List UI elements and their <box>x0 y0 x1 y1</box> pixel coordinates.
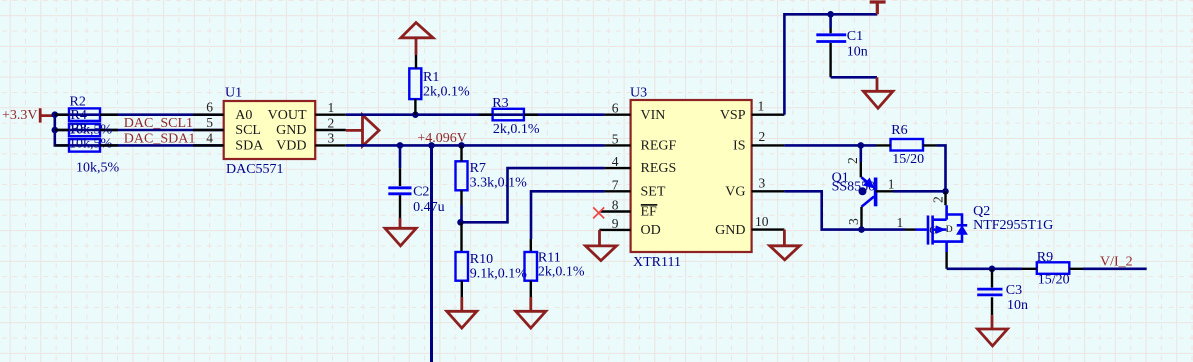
svg-text:10n: 10n <box>1007 298 1028 313</box>
svg-text:GND: GND <box>715 223 745 238</box>
wire row2 DAC_SCL1 <box>55 129 224 132</box>
pin 4 U3 REGS <box>605 154 631 169</box>
svg-text:4: 4 <box>612 154 619 169</box>
svg-text:10k,5%: 10k,5% <box>69 137 113 152</box>
wire Q1 base to junction <box>893 190 946 193</box>
svg-text:U3: U3 <box>630 86 647 101</box>
svg-text:A0: A0 <box>235 108 252 123</box>
svg-text:VG: VG <box>725 184 745 199</box>
svg-text:IS: IS <box>733 138 745 153</box>
capacitor C2 <box>388 145 444 218</box>
svg-text:2k,0.1%: 2k,0.1% <box>493 122 540 137</box>
svg-text:9.1k,0.1%: 9.1k,0.1% <box>470 267 528 282</box>
resistor R9 <box>1022 250 1083 288</box>
svg-text:NTF2955T1G: NTF2955T1G <box>973 218 1053 233</box>
pin 5 U3 REGF <box>605 131 631 146</box>
wire SET to R11 <box>531 191 605 239</box>
resistor R1 <box>409 55 470 115</box>
svg-text:1: 1 <box>758 99 765 114</box>
resistor R6 <box>876 123 937 167</box>
svg-text:V/I_2: V/I_2 <box>1100 254 1133 269</box>
svg-text:3: 3 <box>759 176 766 191</box>
svg-text:8: 8 <box>612 198 619 213</box>
svg-text:SCL: SCL <box>235 123 261 138</box>
ground below C1 <box>863 77 893 108</box>
svg-text:C1: C1 <box>847 29 863 44</box>
pin 3 U3 VG <box>752 176 785 192</box>
svg-text:9: 9 <box>612 216 619 231</box>
svg-text:EF: EF <box>641 205 658 220</box>
resistor R7 <box>456 145 528 205</box>
svg-text:XTR111: XTR111 <box>633 255 681 270</box>
resistor R4 <box>55 108 118 136</box>
wire VDD row to U3 REGF <box>346 144 605 147</box>
wire IS row to R6 <box>784 144 876 147</box>
svg-text:SET: SET <box>641 184 666 199</box>
wire VSP up and across <box>784 14 877 114</box>
ground below R10 <box>447 297 477 328</box>
op-amp U3 XTR111 <box>630 86 752 271</box>
svg-text:DAC_SCL1: DAC_SCL1 <box>124 116 193 131</box>
no-ERC marker pin 8 <box>593 207 604 218</box>
power port arrow right of U1 pin2 <box>346 115 379 146</box>
resistor R11 <box>525 239 585 297</box>
junction dot <box>52 127 59 134</box>
svg-text:DAC5571: DAC5571 <box>226 162 284 177</box>
pin 1 U1 <box>315 100 346 115</box>
svg-text:R6: R6 <box>891 123 907 138</box>
ground below R11 <box>516 297 546 328</box>
wire row3 DAC_SDA1 <box>69 144 224 147</box>
transistor Q1 SS8550 <box>832 145 895 229</box>
svg-text:Q2: Q2 <box>973 204 990 219</box>
capacitor C3 <box>977 269 1028 315</box>
svg-text:R10: R10 <box>470 252 493 267</box>
junction dot R7/R10/REGS <box>457 219 464 226</box>
wire net +3.3V vertical <box>55 115 69 146</box>
pin 8 U3 EF <box>601 198 631 213</box>
svg-text:OD: OD <box>641 223 661 238</box>
svg-text:VOUT: VOUT <box>268 108 307 123</box>
resistor R8 <box>55 122 120 176</box>
svg-text:5: 5 <box>612 131 619 146</box>
wire VG to Q2 gate <box>784 191 905 229</box>
svg-text:+3.3V: +3.3V <box>2 108 38 123</box>
svg-text:REGF: REGF <box>641 138 677 153</box>
svg-text:R7: R7 <box>470 161 486 176</box>
junction dot R1 <box>412 111 419 118</box>
svg-text:2: 2 <box>759 129 766 144</box>
wire R6 right corner down <box>937 145 946 191</box>
svg-text:D: D <box>946 225 953 235</box>
junction dot Q1 collector / VG <box>858 226 865 233</box>
svg-text:GND: GND <box>276 123 306 138</box>
svg-text:R4: R4 <box>71 108 87 123</box>
svg-text:1: 1 <box>888 176 895 191</box>
svg-text:VIN: VIN <box>641 108 666 123</box>
power port VCC arrow above R1 <box>401 23 433 55</box>
pin 5 U1 <box>193 115 224 130</box>
svg-text:2: 2 <box>328 115 335 130</box>
op-amp U1 DAC5571 <box>224 86 316 177</box>
svg-text:2k,0.1%: 2k,0.1% <box>538 265 585 280</box>
svg-text:2: 2 <box>845 157 860 164</box>
pin 6 U3 VIN <box>605 101 631 116</box>
svg-text:1: 1 <box>897 215 904 230</box>
svg-text:5: 5 <box>206 115 213 130</box>
pin 2 U1 <box>315 115 346 130</box>
wire R9 to V/I_2 <box>1083 267 1147 270</box>
pin 2 U3 IS <box>752 129 785 145</box>
resistor R3 <box>479 96 540 137</box>
transistor Q2 NTF2955T1G <box>897 191 1054 268</box>
junction dot C3 <box>989 266 996 273</box>
svg-text:15/20: 15/20 <box>1038 273 1070 288</box>
wire row1 resistor to U1 <box>55 113 224 116</box>
wire long vertical to off-page <box>430 145 433 362</box>
svg-text:C3: C3 <box>1006 283 1022 298</box>
pin 4 U1 <box>193 130 224 145</box>
pin 10 U3 GND <box>752 214 785 230</box>
pin 3 U1 <box>315 131 346 146</box>
junction dot Q1 emitter <box>858 142 865 149</box>
wire R7 bottom to junction <box>460 205 463 222</box>
svg-text:1: 1 <box>328 100 335 115</box>
svg-text:6: 6 <box>206 100 213 115</box>
resistor R10 <box>456 222 528 297</box>
wire REGS run <box>460 168 605 222</box>
capacitor C1 <box>816 14 868 77</box>
ground below pin 10 <box>770 230 800 260</box>
svg-text:3.3k,0.1%: 3.3k,0.1% <box>470 175 527 190</box>
resistor R2 <box>55 95 118 121</box>
svg-text:R11: R11 <box>538 251 561 266</box>
ground below C3 <box>978 315 1008 346</box>
svg-text:10: 10 <box>755 214 769 229</box>
junction dot C2 <box>397 142 404 149</box>
svg-text:10k,5%: 10k,5% <box>76 160 120 175</box>
svg-text:2k,0.1%: 2k,0.1% <box>423 85 470 100</box>
svg-text:0.47u: 0.47u <box>413 200 445 215</box>
wire C1 bottom to ground <box>831 76 877 79</box>
svg-text:C2: C2 <box>413 185 429 200</box>
power port +3.3V <box>2 108 55 123</box>
junction dot C1 <box>827 11 834 18</box>
svg-text:U1: U1 <box>225 86 242 101</box>
pin 1 U3 VSP <box>752 99 785 115</box>
svg-text:REGS: REGS <box>641 161 677 176</box>
wire VOUT row to U3 VIN <box>346 113 605 116</box>
pin 9 U3 OD <box>599 216 630 231</box>
power port bar top right <box>870 2 886 14</box>
svg-text:15/20: 15/20 <box>892 152 924 167</box>
junction dot <box>52 111 59 118</box>
svg-text:3: 3 <box>328 131 335 146</box>
junction dot long vertical <box>428 142 435 149</box>
svg-text:10k,5%: 10k,5% <box>69 123 113 138</box>
ground below OD <box>586 230 617 261</box>
svg-text:10n: 10n <box>847 45 868 60</box>
svg-text:+4.096V: +4.096V <box>417 131 467 146</box>
svg-text:DAC_SDA1: DAC_SDA1 <box>124 131 196 146</box>
ground below C2 <box>385 218 416 246</box>
junction dot base/R6 <box>942 188 949 195</box>
svg-text:4: 4 <box>206 130 213 145</box>
svg-text:SDA: SDA <box>235 139 264 154</box>
svg-text:7: 7 <box>612 177 619 192</box>
wire bottom output row <box>947 267 1022 270</box>
svg-text:VSP: VSP <box>720 108 746 123</box>
svg-text:3: 3 <box>846 218 861 225</box>
pin 7 U3 SET <box>605 177 631 192</box>
pin 6 U1 <box>193 100 224 115</box>
junction dot R7 <box>458 142 465 149</box>
svg-text:6: 6 <box>612 101 619 116</box>
svg-text:2: 2 <box>931 196 946 203</box>
svg-text:R1: R1 <box>423 70 439 85</box>
svg-text:VDD: VDD <box>276 139 306 154</box>
